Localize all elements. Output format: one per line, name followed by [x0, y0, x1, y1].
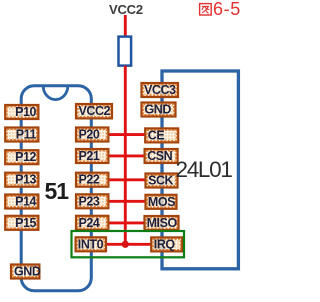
- svg-text:CSN: CSN: [147, 149, 172, 163]
- pin INT0: [76, 237, 106, 251]
- svg-text:P12: P12: [15, 150, 36, 164]
- wire pull-up vertical: [124, 66, 127, 245]
- pin P22: [76, 173, 108, 187]
- pin VCC3 (24L01): [142, 83, 179, 97]
- pin MISO: [145, 216, 179, 230]
- svg-text:P20: P20: [79, 128, 100, 142]
- svg-text:P24: P24: [79, 216, 100, 230]
- pin P21: [76, 149, 108, 163]
- pin P20: [76, 128, 108, 142]
- pin P24: [76, 216, 108, 230]
- svg-text:VCC2: VCC2: [79, 104, 111, 118]
- IC U1 51 MCU body outline: [21, 86, 91, 291]
- svg-text:VCC2: VCC2: [109, 2, 143, 17]
- IC U2 24L01 body outline: [162, 71, 238, 269]
- svg-text:P10: P10: [15, 105, 36, 119]
- svg-text:SCK: SCK: [148, 174, 173, 188]
- pin GND (51): [11, 265, 41, 279]
- pin CSN: [145, 149, 178, 163]
- wire P22 to SCK: [108, 178, 146, 181]
- highlight box INT0-IRQ: [72, 231, 185, 257]
- wire INT0 to IRQ: [106, 243, 151, 246]
- pin SCK: [146, 174, 178, 188]
- svg-text:VCC3: VCC3: [144, 83, 176, 97]
- IC U1 notch: [43, 86, 68, 100]
- wire P20 to CE: [108, 133, 145, 136]
- pin GND (24L01): [142, 103, 176, 117]
- pin P14: [5, 195, 38, 209]
- title 图6-5: [200, 0, 241, 19]
- resistor R1: [119, 37, 132, 66]
- wire VCC2 to resistor: [124, 15, 127, 37]
- pin P23: [76, 194, 108, 208]
- svg-text:P14: P14: [15, 195, 36, 209]
- svg-text:P21: P21: [79, 149, 100, 163]
- svg-text:P22: P22: [79, 173, 100, 187]
- svg-text:P23: P23: [79, 194, 100, 208]
- svg-text:MOS: MOS: [148, 195, 175, 209]
- svg-text:P15: P15: [15, 216, 36, 230]
- svg-text:P11: P11: [16, 128, 37, 142]
- pin MOS: [146, 195, 177, 209]
- pin P15: [5, 216, 38, 230]
- svg-text:GND: GND: [145, 103, 172, 117]
- wire P21 to CSN: [108, 154, 145, 157]
- svg-text:51: 51: [45, 178, 70, 204]
- svg-text:MISO: MISO: [147, 216, 178, 230]
- svg-text:24L01: 24L01: [176, 157, 233, 182]
- wire P24 to MISO: [108, 221, 144, 224]
- junction dot: [122, 241, 129, 248]
- svg-text:GND: GND: [14, 265, 41, 279]
- pin P11: [5, 128, 38, 142]
- svg-text:IRQ: IRQ: [154, 237, 176, 251]
- svg-text:CE: CE: [148, 128, 165, 142]
- pin CE: [145, 128, 178, 142]
- svg-text:P13: P13: [15, 173, 36, 187]
- pin IRQ: [151, 237, 182, 251]
- svg-text:INT0: INT0: [78, 237, 104, 251]
- wire P23 to MOS: [108, 200, 146, 203]
- svg-text:6-5: 6-5: [213, 0, 241, 19]
- pin P13: [5, 173, 38, 187]
- pin VCC2 (51): [76, 104, 112, 118]
- pin P10: [5, 105, 38, 119]
- pin P12: [5, 150, 38, 164]
